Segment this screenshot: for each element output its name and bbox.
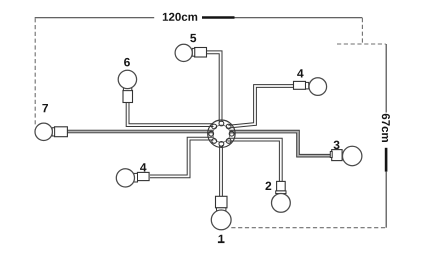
bulb 4 bottom-left <box>116 169 149 187</box>
bulb 6 <box>118 70 136 102</box>
wire arm to bulb 2 (lower right) <box>228 140 281 182</box>
wire arm to bulb 7 (left) <box>67 130 213 134</box>
extension dashed line left <box>34 18 36 126</box>
label 4 top-right <box>297 69 303 77</box>
label 67cm <box>382 114 390 142</box>
wire arm to bulb 1 (bottom) <box>219 145 223 197</box>
bulb 3 <box>330 146 362 165</box>
label 3 <box>334 141 340 150</box>
extension dashed line top-right vertical <box>361 18 363 44</box>
label 4 bottom-left <box>140 163 146 171</box>
wire arm to bulb 6 (upper left) <box>128 102 214 125</box>
wire arm to bulb 4 top-right <box>229 86 295 127</box>
bulb 2 <box>272 181 291 212</box>
wire arm to bulb 3 (right) <box>230 132 331 156</box>
bulb 7 <box>35 123 67 140</box>
bulb 1 <box>211 196 231 230</box>
label 1 <box>219 235 225 243</box>
bulb 5 <box>175 44 206 61</box>
label 6 <box>124 58 130 66</box>
central hub canopy <box>208 120 235 147</box>
extension dashed line top-right horizontal <box>337 43 386 45</box>
wire arm to bulb 5 (top) <box>207 52 221 122</box>
label 2 <box>265 182 271 190</box>
label 5 <box>190 34 196 42</box>
label 120cm <box>163 13 197 21</box>
dimension line 67cm right <box>385 44 387 228</box>
bulb 4 top-right <box>294 78 327 96</box>
wire arm to bulb 4 bottom-left <box>150 139 214 177</box>
extension dashed line bottom <box>231 227 385 229</box>
label 7 <box>42 104 48 112</box>
dimension line 120cm top <box>35 17 363 19</box>
